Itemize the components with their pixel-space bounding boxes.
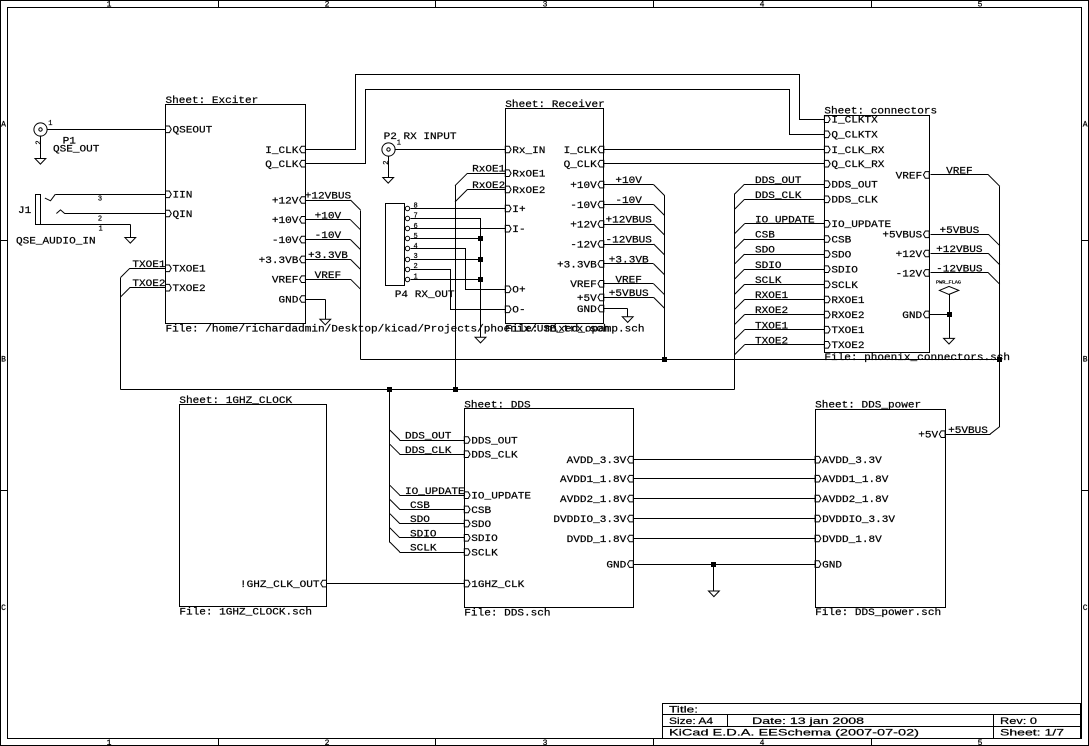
svg-text:2: 2 <box>325 1 330 10</box>
label CSB (control bus) <box>735 231 825 249</box>
svg-text:+3.3VB: +3.3VB <box>308 251 348 262</box>
svg-text:DDS_CLK: DDS_CLK <box>831 196 877 207</box>
svg-text:2: 2 <box>325 739 330 746</box>
ground P2 <box>383 178 394 184</box>
wire 1GHZ_CLK_OUT to DDS 1GHZ_CLK <box>327 583 465 585</box>
svg-text:-12V: -12V <box>896 269 923 280</box>
label TXOE1 (control bus) <box>735 321 825 339</box>
svg-text:RXOE1: RXOE1 <box>831 296 864 307</box>
ground Exciter <box>320 319 331 325</box>
svg-text:O+: O+ <box>512 286 525 297</box>
label DDS_OUT (control bus) <box>735 176 825 194</box>
svg-text:1: 1 <box>48 120 52 128</box>
wire P4 pin4 to Receiver O+ <box>411 249 506 290</box>
label IO_UPDATE (control bus) <box>735 215 825 233</box>
junction P4 pin3 <box>478 257 482 261</box>
wire P2 to Receiver Rx_IN <box>395 149 506 151</box>
wire P2 shield drop <box>388 157 390 178</box>
wire Receiver I_CLK to connectors I_CLK_RX <box>604 149 825 151</box>
wire P4 pin3 stub <box>411 259 481 261</box>
svg-text:SDIO: SDIO <box>410 529 437 540</box>
wire Exciter GND <box>306 300 326 320</box>
svg-text:SCLK: SCLK <box>831 281 858 292</box>
bus DDS control vertical <box>389 390 391 543</box>
svg-text:SDIO: SDIO <box>831 266 858 277</box>
junction RxOE branch <box>453 387 457 391</box>
svg-text:+5VBUS: +5VBUS <box>939 226 979 237</box>
svg-text:1: 1 <box>99 226 103 234</box>
svg-text:4: 4 <box>760 739 765 746</box>
wire AVDD1_1.8V <box>634 478 816 480</box>
label TXOE2 with bus entry <box>121 279 166 297</box>
svg-text:SDIO: SDIO <box>755 261 782 272</box>
svg-text:Q_CLKTX: Q_CLKTX <box>831 131 877 142</box>
bus connectors power vertical <box>999 187 1001 427</box>
svg-text:IO_UPDATE: IO_UPDATE <box>405 487 465 498</box>
label +12VBUS (Receiver power) <box>604 216 665 235</box>
wire connectors GND <box>930 314 950 316</box>
connector P4 (RX_OUT header) <box>386 203 455 302</box>
wire AVDD_3.3V <box>634 459 816 461</box>
svg-text:2: 2 <box>98 216 102 224</box>
svg-text:5: 5 <box>414 233 418 241</box>
svg-text:TXOE1: TXOE1 <box>831 326 864 337</box>
wire P1 shield drop <box>40 136 42 159</box>
svg-text:+12V: +12V <box>570 221 597 232</box>
svg-text:DVDDIO_3.3V: DVDDIO_3.3V <box>553 515 626 526</box>
svg-text:3: 3 <box>543 1 548 10</box>
connector P2 (RX INPUT coax) <box>382 132 457 165</box>
wire Exciter I_CLK to connectors I_CLKTX <box>306 75 825 150</box>
wire Receiver Q_CLK to connectors Q_CLK_RX <box>604 163 825 165</box>
svg-text:I_CLK: I_CLK <box>564 146 597 157</box>
wire Exciter Q_CLK to connectors Q_CLKTX <box>306 90 825 164</box>
svg-text:!GHZ_CLK_OUT: !GHZ_CLK_OUT <box>240 580 320 591</box>
junction DDS branch <box>387 387 391 391</box>
svg-text:1GHZ_CLK: 1GHZ_CLK <box>471 580 524 591</box>
label RXOE1 (control bus) <box>735 291 825 309</box>
svg-text:TXOE1: TXOE1 <box>132 260 165 271</box>
svg-text:AVDD1_1.8V: AVDD1_1.8V <box>560 475 626 486</box>
label SDIO (DDS control) <box>390 528 465 541</box>
title block <box>663 704 1081 739</box>
svg-text:SCLK: SCLK <box>471 548 498 559</box>
svg-text:Sheet: Receiver: Sheet: Receiver <box>505 99 605 111</box>
svg-text:+5V: +5V <box>577 294 597 305</box>
svg-text:CSB: CSB <box>410 501 430 512</box>
wire AVDD2_1.8V <box>634 498 816 500</box>
svg-text:SDIO: SDIO <box>471 534 498 545</box>
svg-text:IO_UPDATE: IO_UPDATE <box>471 492 531 503</box>
hierarchical sheet Receiver <box>505 99 644 335</box>
svg-text:+12VBUS: +12VBUS <box>605 216 651 227</box>
svg-text:+3.3VB: +3.3VB <box>259 256 299 267</box>
svg-text:IO_UPDATE: IO_UPDATE <box>831 220 891 231</box>
label DDS_CLK (DDS control) <box>390 444 465 457</box>
svg-text:J1: J1 <box>18 206 31 217</box>
svg-text:GND: GND <box>606 561 626 572</box>
label -12VBUS (Receiver power) <box>604 236 665 255</box>
svg-text:DDS_OUT: DDS_OUT <box>471 436 517 447</box>
label -12VBUS (connectors power) <box>931 265 1000 285</box>
svg-text:C: C <box>1083 604 1088 613</box>
bus RxOE vertical <box>455 186 457 390</box>
label -10V (Exciter power) <box>306 231 361 249</box>
svg-text:7: 7 <box>414 213 418 221</box>
junction connectors power bus <box>997 357 1001 361</box>
ground connectors <box>944 338 955 344</box>
ground P1 <box>35 159 46 165</box>
svg-text:SCLK: SCLK <box>755 276 782 287</box>
label +5VBUS (DDS_power) with bus entry <box>946 426 1000 437</box>
wire P4 pin2 to Receiver O- <box>411 270 506 310</box>
hierarchical sheet DDS <box>464 399 633 619</box>
svg-text:Sheet: 1/7: Sheet: 1/7 <box>1000 728 1064 739</box>
svg-text:1: 1 <box>414 273 418 281</box>
wire P4 pin5 stub <box>411 238 481 240</box>
svg-text:-12VBUS: -12VBUS <box>936 265 982 276</box>
svg-text:I_CLK_RX: I_CLK_RX <box>831 146 884 157</box>
svg-text:DDS_OUT: DDS_OUT <box>831 181 877 192</box>
svg-text:Sheet: 1GHZ_CLOCK: Sheet: 1GHZ_CLOCK <box>179 395 292 407</box>
svg-text:AVDD1_1.8V: AVDD1_1.8V <box>822 475 888 486</box>
svg-text:SDO: SDO <box>831 251 851 262</box>
svg-text:+5V: +5V <box>918 431 938 442</box>
svg-text:6: 6 <box>414 223 418 231</box>
hierarchical sheet DDS_power <box>815 400 945 620</box>
svg-text:+12V: +12V <box>896 250 923 261</box>
svg-text:DVDD_1.8V: DVDD_1.8V <box>822 535 882 546</box>
svg-text:Q_CLK: Q_CLK <box>265 160 298 171</box>
svg-text:AVDD_3.3V: AVDD_3.3V <box>567 456 627 467</box>
wire J1 pin3 to Exciter IIN <box>56 194 166 196</box>
label SDO (DDS control) <box>390 514 465 527</box>
svg-text:QIN: QIN <box>173 210 193 221</box>
svg-text:VREF: VREF <box>272 276 299 287</box>
svg-text:RxOE2: RxOE2 <box>512 186 545 197</box>
svg-text:O-: O- <box>512 306 525 317</box>
svg-text:5: 5 <box>978 1 983 10</box>
svg-text:2: 2 <box>383 161 391 165</box>
svg-text:I+: I+ <box>512 205 525 216</box>
svg-text:Title:: Title: <box>669 704 698 715</box>
label +3.3VB (Exciter power) <box>306 251 361 269</box>
svg-text:B: B <box>1 356 6 365</box>
svg-text:File: phoenix_connectors.sch: File: phoenix_connectors.sch <box>824 352 1010 364</box>
svg-text:QSE_AUDIO_IN: QSE_AUDIO_IN <box>16 236 96 247</box>
svg-text:VREF: VREF <box>896 171 923 182</box>
svg-text:DVDDIO_3.3V: DVDDIO_3.3V <box>822 515 895 526</box>
wire DVDDIO_3.3V <box>634 518 816 520</box>
svg-text:TXOE2: TXOE2 <box>831 341 864 352</box>
svg-text:QSEOUT: QSEOUT <box>173 126 213 137</box>
svg-text:3: 3 <box>543 739 548 746</box>
label RXOE2 (control bus) <box>735 306 825 324</box>
junction connectors GND <box>947 312 951 316</box>
label SDIO (control bus) <box>735 261 825 279</box>
junction P4 pin1 <box>478 277 482 281</box>
svg-text:DDS_OUT: DDS_OUT <box>755 176 801 187</box>
label +12VBUS (Exciter power) <box>305 192 361 210</box>
wire Receiver GND <box>604 309 628 317</box>
svg-text:+10V: +10V <box>615 176 642 187</box>
svg-text:B: B <box>1083 356 1088 365</box>
svg-text:I_CLKTX: I_CLKTX <box>831 116 877 127</box>
svg-text:2: 2 <box>35 140 43 144</box>
hierarchical sheet 1GHZ_CLOCK <box>179 395 326 618</box>
bus Receiver power vertical <box>664 196 666 360</box>
svg-text:+10V: +10V <box>315 211 342 222</box>
label +3.3VB (Receiver power) <box>604 256 665 275</box>
svg-text:A: A <box>1 121 6 130</box>
svg-text:PWR_FLAG: PWR_FLAG <box>936 282 962 286</box>
svg-text:File: 1GHZ_CLOCK.sch: File: 1GHZ_CLOCK.sch <box>179 606 312 618</box>
svg-text:GND: GND <box>902 311 922 322</box>
wire J1 pin2 to Exciter QIN <box>65 213 166 215</box>
bus control horizontal <box>121 389 735 391</box>
svg-text:+12VBUS: +12VBUS <box>936 245 982 256</box>
svg-text:1: 1 <box>107 1 112 10</box>
label +10V (Receiver power) <box>604 176 665 195</box>
svg-text:File: mixed_opamp.sch: File: mixed_opamp.sch <box>505 323 644 335</box>
power flag PWR_FLAG <box>936 282 962 315</box>
wire GND drop <box>713 565 715 592</box>
svg-text:RXOE2: RXOE2 <box>755 306 788 317</box>
wire P1 to Exciter QSEOUT <box>48 129 166 131</box>
label TXOE1 with bus entry <box>121 260 166 278</box>
svg-text:4: 4 <box>760 1 765 10</box>
svg-text:8: 8 <box>414 203 418 211</box>
label SCLK (DDS control) <box>390 542 465 555</box>
label DDS_OUT (DDS control) <box>390 430 465 443</box>
svg-text:IIN: IIN <box>173 191 193 202</box>
svg-text:+3.3VB: +3.3VB <box>557 260 597 271</box>
ground P4 <box>475 337 486 343</box>
svg-text:SDO: SDO <box>755 246 775 257</box>
svg-text:-10V: -10V <box>315 231 342 242</box>
svg-text:P2 RX INPUT: P2 RX INPUT <box>384 132 457 143</box>
svg-text:AVDD2_1.8V: AVDD2_1.8V <box>822 495 888 506</box>
svg-text:+10V: +10V <box>570 181 597 192</box>
connector P1 (QSE_OUT coax) <box>34 120 99 156</box>
svg-text:I_CLK: I_CLK <box>265 146 298 157</box>
label RxOE2 with bus entry <box>455 181 506 202</box>
bus Exciter power vertical <box>360 211 362 360</box>
junction P4 pin5 <box>478 236 482 240</box>
svg-text:-10V: -10V <box>615 196 642 207</box>
svg-text:QSE_OUT: QSE_OUT <box>53 145 99 156</box>
svg-text:-12V: -12V <box>570 240 597 251</box>
label VREF (Receiver power) <box>604 275 665 294</box>
svg-text:RXOE1: RXOE1 <box>755 291 788 302</box>
svg-text:VREF: VREF <box>570 280 597 291</box>
svg-text:GND: GND <box>577 305 597 316</box>
svg-text:P4 RX_OUT: P4 RX_OUT <box>395 290 455 301</box>
junction Receiver bus <box>662 357 666 361</box>
svg-text:-10V: -10V <box>272 236 299 247</box>
connector J1 (QSE_AUDIO_IN jack) <box>16 194 103 247</box>
label +5VBUS (Receiver power) <box>604 289 665 308</box>
ground Receiver <box>622 317 633 323</box>
svg-text:RxOE2: RxOE2 <box>472 181 505 192</box>
svg-text:TXOE1: TXOE1 <box>755 321 788 332</box>
svg-text:4: 4 <box>414 243 418 251</box>
ground J1 <box>125 238 136 244</box>
junction GND wire <box>711 562 715 566</box>
svg-text:CSB: CSB <box>471 506 491 517</box>
svg-text:AVDD_3.3V: AVDD_3.3V <box>822 456 882 467</box>
svg-text:SDO: SDO <box>471 520 491 531</box>
svg-text:TXOE1: TXOE1 <box>173 265 206 276</box>
svg-text:+12V: +12V <box>272 196 299 207</box>
hierarchical sheet Exciter <box>166 95 610 336</box>
svg-text:VREF: VREF <box>946 167 973 178</box>
svg-text:GND: GND <box>279 295 299 306</box>
svg-text:RxOE1: RxOE1 <box>512 170 545 181</box>
label CSB (DDS control) <box>390 500 465 513</box>
bus power horizontal <box>361 359 1000 361</box>
label TXOE2 (control bus) <box>735 336 825 354</box>
ground DDS <box>709 591 720 597</box>
bus control vertical at connectors <box>734 194 736 390</box>
svg-text:3: 3 <box>98 195 102 203</box>
wire P4 pin7 to ground bus <box>411 219 481 280</box>
svg-text:SDO: SDO <box>410 515 430 526</box>
label +10V (Exciter power) <box>306 211 361 229</box>
svg-text:KiCad E.D.A. EESchema (2007-0: KiCad E.D.A. EESchema (2007-07-02) <box>669 728 919 739</box>
svg-text:-10V: -10V <box>570 201 597 212</box>
svg-text:RXOE2: RXOE2 <box>831 311 864 322</box>
label +12VBUS (connectors power) <box>931 245 1000 265</box>
svg-text:Sheet: DDS: Sheet: DDS <box>464 399 530 411</box>
wire P4 pin6 to Receiver I- <box>411 228 506 230</box>
svg-text:VREF: VREF <box>315 271 342 282</box>
svg-text:File: DDS.sch: File: DDS.sch <box>464 608 550 620</box>
svg-text:DDS_CLK: DDS_CLK <box>755 191 801 202</box>
svg-text:+5VBUS: +5VBUS <box>948 426 988 437</box>
svg-text:TXOE2: TXOE2 <box>173 284 206 295</box>
svg-text:A: A <box>1083 121 1088 130</box>
svg-text:AVDD2_1.8V: AVDD2_1.8V <box>560 495 626 506</box>
label SDO (control bus) <box>735 246 825 264</box>
wire P4 pin1 stub <box>411 279 481 281</box>
label VREF (Exciter power) <box>306 271 361 289</box>
svg-text:1: 1 <box>107 739 112 746</box>
svg-text:Sheet: DDS_power: Sheet: DDS_power <box>815 400 921 412</box>
bus TXOE vertical left <box>120 278 122 390</box>
label RxOE1 with bus entry <box>455 165 506 186</box>
label VREF (connectors power) <box>931 167 1000 187</box>
wire P4 ground drop <box>480 280 482 338</box>
wire connectors GND drop <box>949 315 951 339</box>
svg-text:DVDD_1.8V: DVDD_1.8V <box>567 535 627 546</box>
hierarchical sheet connectors <box>824 105 1010 363</box>
svg-text:CSB: CSB <box>831 235 851 246</box>
svg-text:TXOE2: TXOE2 <box>755 336 788 347</box>
label -10V (Receiver power) <box>604 196 665 215</box>
svg-text:GND: GND <box>822 561 842 572</box>
svg-text:File: DDS_power.sch: File: DDS_power.sch <box>815 607 941 619</box>
svg-text:I-: I- <box>512 225 525 236</box>
svg-text:Rev: 0: Rev: 0 <box>1000 716 1037 727</box>
svg-text:C: C <box>1 604 6 613</box>
label IO_UPDATE (DDS control) <box>390 485 465 498</box>
svg-text:IO_UPDATE: IO_UPDATE <box>755 215 815 226</box>
svg-text:RxOE1: RxOE1 <box>472 165 505 176</box>
svg-text:1: 1 <box>397 140 401 148</box>
label +5VBUS (connectors power) <box>931 226 1000 246</box>
svg-text:Sheet: Exciter: Sheet: Exciter <box>166 95 259 107</box>
wire GND DDS to DDS_power <box>634 564 816 566</box>
svg-text:Size: A4: Size: A4 <box>669 716 713 727</box>
label DDS_CLK (control bus) <box>735 191 825 209</box>
svg-text:5: 5 <box>978 739 983 746</box>
wire J1 sleeve to ground <box>41 225 131 238</box>
svg-text:DDS_CLK: DDS_CLK <box>471 451 517 462</box>
svg-text:+3.3VB: +3.3VB <box>609 256 649 267</box>
wire P4 pin8 to Receiver I+ <box>411 208 506 210</box>
svg-text:+5VBUS: +5VBUS <box>609 289 649 300</box>
svg-text:DDS_CLK: DDS_CLK <box>405 446 451 457</box>
svg-text:Q_CLK: Q_CLK <box>564 160 597 171</box>
svg-text:VREF: VREF <box>615 275 642 286</box>
svg-text:+5VBUS: +5VBUS <box>882 231 922 242</box>
svg-text:Date: 13 jan 2008: Date: 13 jan 2008 <box>752 716 864 727</box>
label SCLK (control bus) <box>735 276 825 294</box>
svg-text:TXOE2: TXOE2 <box>132 279 165 290</box>
svg-text:Rx_IN: Rx_IN <box>512 146 545 157</box>
svg-text:+10V: +10V <box>272 216 299 227</box>
svg-text:Q_CLK_RX: Q_CLK_RX <box>831 160 884 171</box>
wire DVDD_1.8V <box>634 538 816 540</box>
